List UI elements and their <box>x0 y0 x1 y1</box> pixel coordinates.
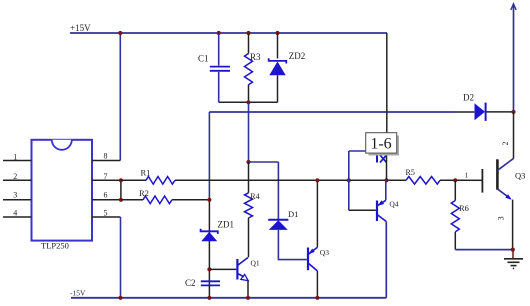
wire tie pins 7-6 <box>120 180 122 200</box>
node junction x248 y102 <box>246 100 250 104</box>
node junction pin6 <box>119 198 123 202</box>
svg-text:8: 8 <box>104 152 108 161</box>
wire line B right <box>172 199 209 201</box>
svg-text:Q4: Q4 <box>389 200 398 209</box>
wire emitter drop <box>512 200 514 250</box>
zener diode ZD2 <box>269 33 306 102</box>
wire Q4 left branch <box>348 151 350 210</box>
svg-text:2: 2 <box>501 142 510 146</box>
svg-text:ZD2: ZD2 <box>289 51 306 61</box>
wire line A middle <box>175 179 406 181</box>
wire x248 column from y102 to y162 <box>248 102 250 162</box>
node junction R2 x209 <box>207 198 211 202</box>
wire Q4 collector drop to -15V <box>385 222 387 298</box>
node junction D2 x513 <box>511 110 515 114</box>
capacitor C1 <box>198 33 230 102</box>
annotation box 1-6 shadow <box>369 136 400 156</box>
pin 8 <box>92 152 120 161</box>
wire rail y112 to D2 <box>455 111 474 113</box>
wire Q4 emitter riser <box>385 180 387 200</box>
wire line B left <box>121 199 143 201</box>
pin 1 <box>3 152 32 161</box>
node junction line A x317 <box>315 178 319 182</box>
IC U1 TLP250 body <box>32 140 93 251</box>
node junction -15V x120 <box>118 296 122 300</box>
pin 2 <box>3 172 32 181</box>
resistor R4 <box>245 162 260 257</box>
svg-text:C1: C1 <box>198 54 209 64</box>
wire x209 column lower <box>208 200 210 298</box>
wire D1 to Q3 base <box>278 230 307 260</box>
wire top right riser with arrow <box>511 4 516 112</box>
svg-text:5: 5 <box>104 209 108 218</box>
node junction Q1 base <box>207 267 211 271</box>
wire branch to D1 <box>249 162 279 220</box>
svg-text:1: 1 <box>13 152 17 161</box>
annotation box 1-6 <box>366 133 397 153</box>
node junction ground <box>511 248 515 252</box>
capacitor C2 <box>185 278 220 288</box>
svg-text:1: 1 <box>465 171 469 180</box>
wire line A left <box>121 179 146 181</box>
svg-text:Q1: Q1 <box>251 258 260 267</box>
svg-text:TLP250: TLP250 <box>41 241 69 251</box>
transistor Q3 small <box>308 247 329 271</box>
resistor R6 <box>451 180 469 249</box>
zener diode hidden under box <box>377 154 387 163</box>
node junction -15V x209 <box>207 296 211 300</box>
node junction line A x348 <box>347 178 351 182</box>
svg-text:3: 3 <box>13 190 17 199</box>
node junction -15V x317 <box>315 296 319 300</box>
node junction top rail C1 <box>217 31 221 35</box>
wire bottom of C1 R3 ZD2 <box>219 101 278 103</box>
resistor R3 <box>245 33 262 102</box>
+15V rail <box>70 23 387 33</box>
wire R6 bottom to ground <box>455 249 513 251</box>
node junction top rail x120 <box>118 31 122 35</box>
pin 3 <box>3 190 32 200</box>
transistor Q4 <box>349 200 399 222</box>
wire Q3 small collector drop <box>316 271 318 298</box>
svg-text:R1: R1 <box>141 168 151 178</box>
pin 7 <box>92 172 121 181</box>
pin 4 <box>3 209 32 218</box>
transistor Q3 IGBT <box>469 158 525 199</box>
svg-text:6: 6 <box>104 190 108 199</box>
svg-text:R6: R6 <box>459 203 469 213</box>
transistor Q1 <box>209 258 260 281</box>
node junction -15V x248 <box>246 296 250 300</box>
svg-text:7: 7 <box>104 172 108 181</box>
wire collector riser <box>513 112 515 159</box>
pin 6 <box>92 190 121 200</box>
node junction R6 branch <box>453 178 457 182</box>
ground <box>504 250 523 269</box>
zener diode ZD1 <box>201 220 234 242</box>
wire line A right of R5 <box>440 179 469 181</box>
node junction pin7 <box>119 178 123 182</box>
svg-text:3: 3 <box>496 216 506 220</box>
wire rail y112 <box>209 111 455 113</box>
diode D2 <box>463 93 514 121</box>
node junction line A x386 <box>384 178 388 182</box>
wire x387 from top rail to box <box>386 33 388 133</box>
svg-text:R4: R4 <box>250 192 259 201</box>
node junction top rail R3 <box>246 31 250 35</box>
wire Q3 small emitter riser <box>316 180 318 247</box>
wire pin8 riser <box>119 33 121 161</box>
-15V rail <box>70 289 386 298</box>
svg-text:R2: R2 <box>139 188 149 198</box>
node junction top rail ZD2 <box>275 31 279 35</box>
svg-text:D2: D2 <box>463 93 474 103</box>
svg-text:ZD1: ZD1 <box>218 220 235 230</box>
svg-text:C2: C2 <box>185 278 196 288</box>
pin 5 <box>92 209 121 218</box>
svg-text:2: 2 <box>13 172 17 181</box>
svg-text:R3: R3 <box>250 52 261 62</box>
wire Q1 emitter drop <box>247 280 249 297</box>
wire box to node x386 <box>386 152 388 180</box>
node junction x248 y162 <box>246 160 250 164</box>
wire pin5 drop <box>120 217 122 298</box>
wire x209 column upper <box>208 112 210 200</box>
svg-text:1-6: 1-6 <box>370 136 391 153</box>
resistor R2 <box>139 188 172 204</box>
svg-text:4: 4 <box>13 209 17 218</box>
svg-text:-15V: -15V <box>70 289 86 298</box>
wire hidden top link <box>349 150 376 152</box>
diode D1 <box>268 209 298 230</box>
svg-text:Q3: Q3 <box>320 248 329 257</box>
resistor R5 <box>406 168 441 184</box>
svg-text:D1: D1 <box>288 209 298 219</box>
resistor R1 <box>141 168 176 184</box>
svg-text:Q3: Q3 <box>515 171 525 181</box>
svg-text:R5: R5 <box>406 168 415 177</box>
svg-text:+15V: +15V <box>70 23 91 33</box>
